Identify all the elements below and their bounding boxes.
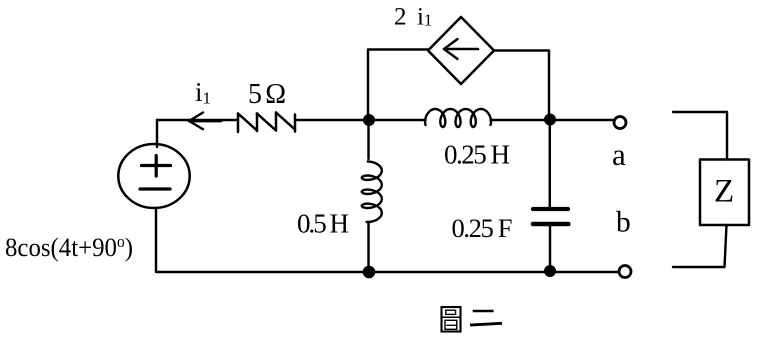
svg-text:5 Ω: 5 Ω [248, 79, 286, 110]
svg-text:0.25 H: 0.25 H [444, 140, 510, 170]
svg-text:2: 2 [394, 4, 407, 31]
svg-text:a: a [612, 137, 626, 172]
svg-text:Z: Z [714, 174, 734, 210]
svg-text:b: b [616, 207, 631, 239]
svg-text:0.5 H: 0.5 H [297, 209, 349, 239]
svg-text:0.25 F: 0.25 F [452, 213, 513, 243]
svg-text:8cos(4t+90o): 8cos(4t+90o) [5, 232, 133, 262]
